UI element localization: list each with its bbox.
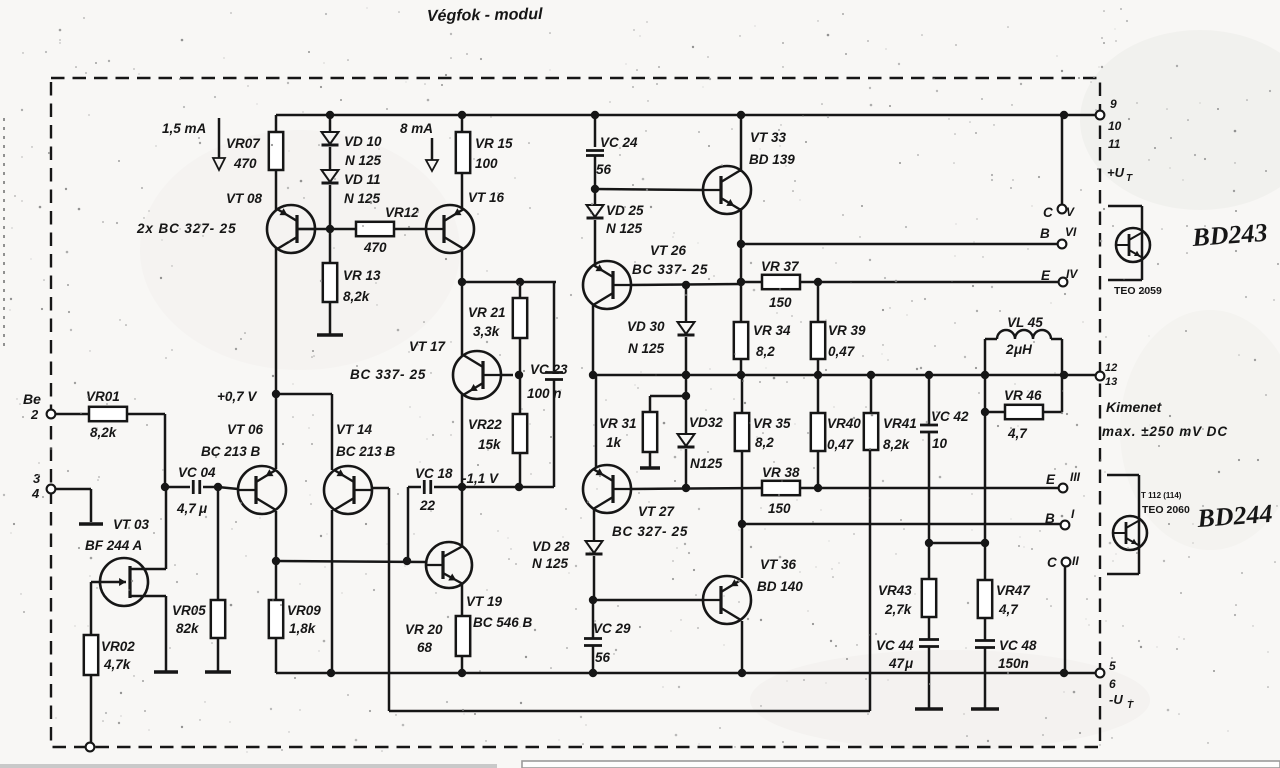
svg-text:BC 546 B: BC 546 B — [473, 615, 533, 630]
svg-text:IV: IV — [1066, 267, 1078, 281]
svg-text:68: 68 — [417, 640, 433, 655]
svg-text:1k: 1k — [606, 435, 623, 450]
svg-text:V: V — [1066, 205, 1075, 219]
svg-text:μ: μ — [904, 656, 913, 671]
svg-text:N 125: N 125 — [345, 153, 382, 168]
svg-text:15k: 15k — [478, 437, 502, 452]
svg-text:BC 337- 25: BC 337- 25 — [632, 262, 708, 277]
svg-text:2: 2 — [30, 407, 39, 422]
svg-text:VD 30: VD 30 — [627, 319, 665, 334]
svg-text:5: 5 — [1109, 659, 1116, 673]
svg-text:VT 26: VT 26 — [650, 243, 687, 258]
svg-text:II: II — [1072, 554, 1079, 568]
svg-text:150: 150 — [769, 295, 792, 310]
svg-text:C: C — [1043, 205, 1053, 220]
svg-text:BD 139: BD 139 — [749, 152, 795, 167]
svg-text:VR01: VR01 — [86, 389, 120, 404]
svg-text:VR 20: VR 20 — [405, 622, 443, 637]
svg-text:1,8k: 1,8k — [289, 621, 317, 636]
svg-text:N 125: N 125 — [344, 191, 381, 206]
svg-text:470: 470 — [363, 240, 387, 255]
svg-text:TEO 2060: TEO 2060 — [1142, 504, 1190, 516]
svg-text:N125: N125 — [690, 456, 723, 471]
svg-text:+0,7 V: +0,7 V — [217, 389, 257, 404]
svg-text:8 mA: 8 mA — [400, 121, 433, 136]
svg-text:VT 14: VT 14 — [336, 422, 373, 437]
svg-text:150n: 150n — [998, 656, 1029, 671]
svg-text:BF 244 A: BF 244 A — [85, 538, 142, 553]
svg-text:VR 38: VR 38 — [762, 465, 800, 480]
svg-text:2x BC 327- 25: 2x BC 327- 25 — [136, 221, 237, 236]
svg-text:4,7: 4,7 — [998, 602, 1019, 617]
svg-text:VR09: VR09 — [287, 603, 321, 618]
svg-text:56: 56 — [595, 650, 611, 665]
svg-text:E: E — [1046, 472, 1056, 487]
svg-text:11: 11 — [1108, 137, 1121, 151]
svg-text:VT 27: VT 27 — [638, 504, 676, 519]
svg-text:VR 34: VR 34 — [753, 323, 791, 338]
svg-text:10: 10 — [1108, 119, 1122, 133]
svg-text:VC 29: VC 29 — [593, 621, 631, 636]
svg-text:VR41: VR41 — [883, 416, 917, 431]
svg-text:56: 56 — [596, 162, 612, 177]
svg-text:470: 470 — [233, 156, 257, 171]
svg-text:E: E — [1041, 268, 1051, 283]
svg-text:VR 31: VR 31 — [599, 416, 637, 431]
svg-text:VR 13: VR 13 — [343, 268, 381, 283]
svg-text:B: B — [1045, 511, 1055, 526]
svg-text:9: 9 — [1110, 97, 1117, 111]
svg-text:B: B — [1040, 226, 1050, 241]
svg-text:VT 16: VT 16 — [468, 190, 505, 205]
svg-text:13: 13 — [1105, 376, 1117, 388]
svg-text:8,2k: 8,2k — [90, 425, 118, 440]
svg-text:4,7: 4,7 — [176, 501, 197, 516]
svg-text:VR02: VR02 — [101, 639, 135, 654]
svg-text:VT 08: VT 08 — [226, 191, 263, 206]
svg-text:VR 39: VR 39 — [828, 323, 866, 338]
svg-text:+U: +U — [1107, 165, 1125, 180]
svg-text:VR07: VR07 — [226, 136, 261, 151]
svg-text:3: 3 — [33, 471, 41, 486]
svg-text:VR 37: VR 37 — [761, 259, 800, 274]
svg-text:VD 11: VD 11 — [344, 172, 381, 187]
svg-text:22: 22 — [419, 498, 436, 513]
svg-text:100 n: 100 n — [527, 386, 562, 401]
svg-text:VT 19: VT 19 — [466, 594, 503, 609]
svg-text:47: 47 — [888, 656, 906, 671]
svg-text:3,3k: 3,3k — [473, 324, 501, 339]
svg-text:VD 10: VD 10 — [344, 134, 382, 149]
svg-text:VR 46: VR 46 — [1004, 388, 1042, 403]
svg-text:μ: μ — [198, 501, 207, 516]
svg-text:8,2: 8,2 — [756, 344, 775, 359]
svg-text:BD 140: BD 140 — [757, 579, 803, 594]
svg-text:VR22: VR22 — [468, 417, 502, 432]
svg-text:N 125: N 125 — [532, 556, 569, 571]
svg-text:2,7k: 2,7k — [884, 602, 913, 617]
svg-text:VC 23: VC 23 — [530, 362, 568, 377]
svg-text:VI: VI — [1065, 225, 1077, 239]
svg-text:VT 33: VT 33 — [750, 130, 787, 145]
svg-text:-1,1 V: -1,1 V — [462, 471, 499, 486]
svg-text:VL 45: VL 45 — [1007, 315, 1043, 330]
svg-text:T: T — [1127, 700, 1134, 711]
svg-text:VR 15: VR 15 — [475, 136, 513, 151]
svg-text:T 112 (114): T 112 (114) — [1141, 491, 1182, 500]
svg-text:VT 06: VT 06 — [227, 422, 264, 437]
svg-text:BC 213 B: BC 213 B — [336, 444, 396, 459]
svg-text:BD244: BD244 — [1195, 499, 1273, 533]
svg-text:VC 24: VC 24 — [600, 135, 638, 150]
svg-text:T: T — [1126, 173, 1133, 184]
svg-text:100: 100 — [475, 156, 498, 171]
svg-text:BC 327- 25: BC 327- 25 — [612, 524, 688, 539]
svg-text:150: 150 — [768, 501, 791, 516]
svg-text:μH: μH — [1013, 342, 1032, 357]
svg-text:VD 28: VD 28 — [532, 539, 570, 554]
svg-text:VT 17: VT 17 — [409, 339, 447, 354]
svg-text:4: 4 — [31, 486, 40, 501]
svg-text:VC 48: VC 48 — [999, 638, 1037, 653]
svg-text:VR12: VR12 — [385, 205, 419, 220]
svg-text:8,2k: 8,2k — [883, 437, 911, 452]
svg-text:max. ±250 mV DC: max. ±250 mV DC — [1102, 424, 1228, 439]
svg-text:VC 44: VC 44 — [876, 638, 914, 653]
svg-text:8,2: 8,2 — [755, 435, 774, 450]
svg-text:VR47: VR47 — [996, 583, 1031, 598]
svg-text:-U: -U — [1109, 692, 1123, 707]
svg-text:VD32: VD32 — [689, 415, 723, 430]
svg-text:BC 337- 25: BC 337- 25 — [350, 367, 426, 382]
svg-text:12: 12 — [1105, 362, 1117, 374]
svg-text:0,47: 0,47 — [827, 437, 855, 452]
svg-text:8,2k: 8,2k — [343, 289, 371, 304]
svg-text:10: 10 — [932, 436, 948, 451]
svg-text:VT 36: VT 36 — [760, 557, 797, 572]
svg-text:4,7k: 4,7k — [103, 657, 132, 672]
svg-text:2: 2 — [1005, 342, 1014, 357]
svg-text:VR05: VR05 — [172, 603, 206, 618]
svg-text:1,5 mA: 1,5 mA — [162, 121, 206, 136]
svg-text:Végfok - modul: Végfok - modul — [427, 6, 543, 25]
svg-text:Kimenet: Kimenet — [1106, 399, 1163, 415]
svg-text:82k: 82k — [176, 621, 200, 636]
svg-text:VR 21: VR 21 — [468, 305, 506, 320]
svg-text:TEO 2059: TEO 2059 — [1114, 285, 1162, 297]
svg-text:VR43: VR43 — [878, 583, 912, 598]
svg-text:N 125: N 125 — [606, 221, 643, 236]
svg-text:C: C — [1047, 555, 1057, 570]
svg-text:III: III — [1070, 470, 1081, 484]
svg-text:VD 25: VD 25 — [606, 203, 644, 218]
svg-text:VC 04: VC 04 — [178, 465, 216, 480]
svg-text:Be: Be — [23, 391, 41, 407]
svg-text:BC 213 B: BC 213 B — [201, 444, 261, 459]
svg-text:VR40: VR40 — [827, 416, 861, 431]
svg-text:N 125: N 125 — [628, 341, 665, 356]
svg-text:6: 6 — [1109, 677, 1116, 691]
svg-text:BD243: BD243 — [1190, 218, 1268, 252]
svg-text:VC 18: VC 18 — [415, 466, 453, 481]
svg-text:0,47: 0,47 — [828, 344, 856, 359]
svg-text:VT 03: VT 03 — [113, 517, 150, 532]
svg-text:VR 35: VR 35 — [753, 416, 791, 431]
